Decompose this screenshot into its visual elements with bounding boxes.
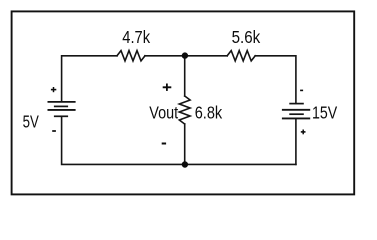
svg-text:5V: 5V (23, 112, 40, 132)
svg-text:6.8k: 6.8k (195, 103, 223, 123)
svg-text:Vout: Vout (149, 103, 178, 123)
svg-text:5.6k: 5.6k (232, 27, 261, 47)
svg-text:4.7k: 4.7k (122, 27, 150, 47)
svg-text:15V: 15V (312, 103, 338, 123)
